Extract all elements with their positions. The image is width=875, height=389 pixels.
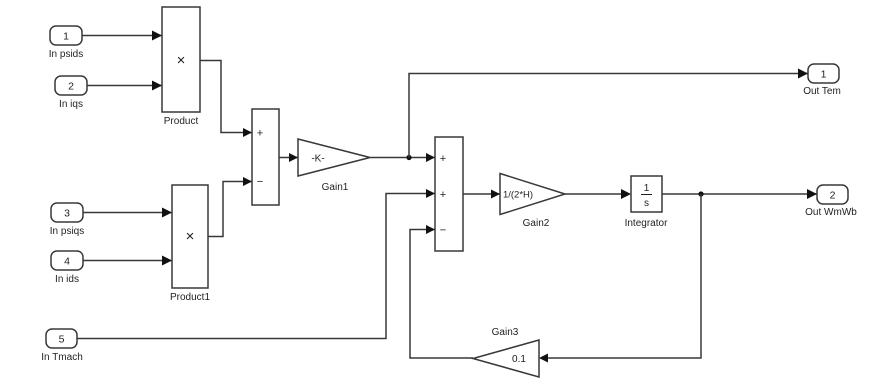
arrowhead into Product1 pin1 [162, 208, 172, 218]
svg-text:Out Tem: Out Tem [803, 86, 841, 97]
arrowhead into Product1 pin2 [162, 256, 172, 266]
wire junction A up to Out1 [409, 74, 808, 158]
wire In1 to Product [82, 35, 162, 37]
Sum2 block [435, 137, 463, 251]
svg-text:1: 1 [644, 183, 650, 194]
arrowhead into Sum2 plus2 [426, 189, 435, 198]
wire In3 to Product1 [83, 212, 172, 214]
svg-text:−: − [257, 176, 263, 188]
junction A [406, 155, 411, 160]
Product1 block [172, 185, 208, 288]
svg-text:In Tmach: In Tmach [41, 352, 83, 363]
svg-text:×: × [186, 228, 195, 245]
wire In5 to Sum2 plus2 [77, 194, 435, 339]
svg-text:s: s [644, 198, 649, 209]
Integrator block [631, 176, 662, 212]
svg-text:5: 5 [59, 334, 65, 346]
svg-text:Gain2: Gain2 [523, 218, 550, 229]
Sum1 block [252, 109, 279, 205]
svg-text:In psiqs: In psiqs [50, 226, 84, 237]
wire In4 to Product1 [83, 260, 172, 262]
Gain1 triangle [298, 139, 370, 176]
svg-text:Out WmWb: Out WmWb [805, 207, 857, 218]
input port In2 [55, 76, 87, 95]
svg-text:Gain3: Gain3 [492, 327, 519, 338]
input port In3 [51, 203, 83, 222]
output port Out2 [817, 185, 848, 204]
input port In4 [51, 251, 83, 270]
svg-text:1/(2*H): 1/(2*H) [503, 190, 533, 201]
svg-text:In psids: In psids [49, 49, 83, 60]
wire Sum1 to Gain1 [279, 157, 298, 159]
arrowhead into Gain1 [289, 153, 298, 162]
arrowhead into Sum1 minus [243, 177, 252, 186]
svg-text:1: 1 [63, 31, 69, 43]
wire junction B down to Gain3 input [548, 194, 701, 358]
svg-text:-K-: -K- [311, 154, 324, 165]
arrowhead into Sum1 plus [243, 128, 252, 137]
svg-text:Product: Product [164, 116, 199, 127]
input port In1 [50, 26, 82, 45]
svg-text:−: − [440, 225, 446, 237]
wire Gain1 to junction A and Sum2 plus1 [370, 157, 435, 159]
arrowhead into Gain2 [491, 190, 500, 199]
wire Product to Sum1 plus [200, 61, 252, 133]
svg-text:Gain1: Gain1 [322, 182, 349, 193]
wire In2 to Product [87, 85, 162, 87]
junction B [698, 191, 703, 196]
svg-text:In ids: In ids [55, 274, 79, 285]
wire Gain2 to Integrator [565, 193, 621, 195]
svg-text:3: 3 [64, 208, 70, 220]
svg-text:4: 4 [64, 256, 70, 268]
svg-text:Product1: Product1 [170, 292, 210, 303]
arrowhead into Sum2 minus [426, 225, 435, 234]
arrowhead into Gain3 [539, 354, 548, 363]
svg-text:0.1: 0.1 [512, 354, 526, 365]
svg-text:1: 1 [821, 69, 827, 81]
arrowhead into Out2 [807, 189, 817, 199]
arrowhead into Product pin2 [152, 81, 162, 91]
Product block [162, 7, 200, 112]
arrowhead into Out1 [798, 69, 808, 79]
arrowhead into Integrator [621, 189, 631, 199]
wire Product1 to Sum1 minus [208, 182, 252, 237]
Gain2 triangle [500, 174, 565, 215]
Integrator fraction bar [641, 194, 652, 196]
svg-text:In iqs: In iqs [59, 99, 83, 110]
svg-text:×: × [177, 52, 186, 69]
Gain3 triangle [473, 340, 539, 377]
wire Sum2 to Gain2 [463, 193, 500, 195]
arrowhead into Sum2 plus1 [426, 153, 435, 162]
output port Out1 [808, 64, 839, 83]
wire Integrator to junction B and Out2 [662, 193, 817, 195]
wire Gain3 to Sum2 minus [410, 230, 473, 359]
svg-text:+: + [440, 189, 446, 201]
svg-text:Integrator: Integrator [625, 218, 668, 229]
input port In5 [46, 329, 77, 348]
svg-text:2: 2 [68, 81, 74, 93]
svg-text:+: + [257, 128, 263, 140]
svg-text:2: 2 [830, 190, 836, 202]
arrowhead into Product pin1 [152, 31, 162, 41]
svg-text:+: + [440, 153, 446, 165]
